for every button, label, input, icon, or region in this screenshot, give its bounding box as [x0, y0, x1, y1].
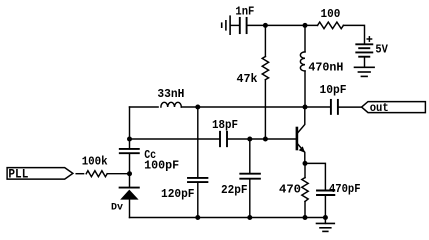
svg-text:33nH: 33nH	[157, 88, 184, 101]
wire emitter to 470pF	[305, 163, 325, 190]
wire 22pF column	[249, 139, 251, 174]
svg-text:22pF: 22pF	[221, 184, 248, 197]
node: gnd/470pF	[323, 215, 328, 220]
wire	[343, 25, 364, 43]
battery 5V	[356, 44, 372, 56]
out terminal	[362, 102, 426, 113]
ground (below battery)	[355, 67, 375, 76]
node: supply/470nH junction	[303, 23, 308, 28]
node: gnd/470	[303, 215, 308, 220]
capacitor 10pF	[331, 100, 338, 114]
inductor 33nH	[130, 106, 159, 108]
resistor 47k	[264, 25, 266, 56]
node: supply/47k junction	[263, 23, 268, 28]
capacitor 470pF	[317, 191, 334, 196]
node: tank/base-wire junction	[127, 137, 132, 142]
wire	[107, 173, 129, 175]
svg-text:100: 100	[321, 8, 341, 21]
inductor 470nH	[304, 25, 306, 52]
wire	[231, 24, 239, 26]
wire	[76, 173, 83, 175]
wire ground row	[130, 217, 326, 219]
wire collector bus	[181, 106, 330, 108]
svg-text:5V: 5V	[375, 43, 388, 56]
diode Dv (varactor)	[120, 187, 139, 189]
svg-text:1nF: 1nF	[235, 6, 254, 19]
svg-text:47k: 47k	[237, 73, 258, 86]
wire	[339, 106, 362, 108]
capacitor 22pF	[240, 174, 260, 179]
node: gnd/22pF	[247, 215, 252, 220]
svg-text:120pF: 120pF	[161, 188, 195, 201]
node: emitter junction	[303, 161, 308, 166]
wire 120pF column	[197, 107, 199, 178]
ground (bottom right)	[324, 218, 326, 224]
capacitor 18pF	[220, 132, 227, 146]
node: bus/120pF junction	[195, 105, 200, 110]
node: base/47k junction	[263, 137, 268, 142]
svg-text:100pF: 100pF	[144, 160, 179, 173]
capacitor Cc 100pF	[120, 149, 139, 153]
capacitor 1nF	[240, 18, 247, 33]
svg-text:100k: 100k	[82, 156, 108, 169]
wire	[228, 138, 296, 140]
svg-text:470nH: 470nH	[308, 61, 343, 74]
svg-text:18pF: 18pF	[212, 119, 238, 132]
node: gnd/120pF	[195, 215, 200, 220]
wire supply row	[248, 24, 318, 26]
node: base/22pF junction	[247, 137, 252, 142]
svg-text:470: 470	[279, 183, 301, 196]
node: collector/470nH junction	[303, 105, 308, 110]
PLL terminal	[7, 168, 73, 180]
ground (supply bypass, rotated left of 1nF)	[222, 16, 230, 34]
resistor 100k	[86, 171, 107, 177]
svg-text:Dv: Dv	[111, 201, 124, 213]
wire left column	[129, 107, 131, 149]
capacitor 120pF	[188, 178, 207, 182]
svg-text:out: out	[370, 102, 389, 115]
svg-text:PLL: PLL	[8, 167, 28, 182]
wire base row	[130, 138, 220, 140]
resistor 470	[304, 163, 306, 177]
svg-text:470pF: 470pF	[329, 183, 361, 196]
node: varactor/100k junction	[127, 171, 132, 176]
transistor Q1	[296, 128, 299, 149]
resistor 100	[318, 22, 344, 29]
svg-text:10pF: 10pF	[320, 84, 347, 97]
